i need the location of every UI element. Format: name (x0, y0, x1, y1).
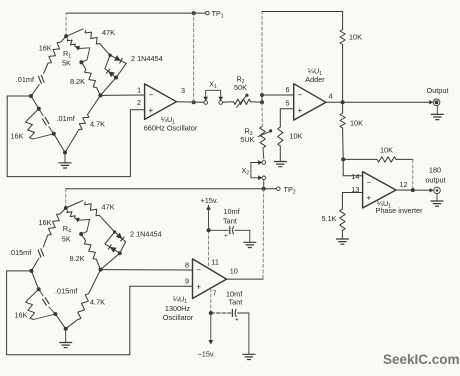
terminal TP2 (277, 187, 281, 191)
label plus U1c (196, 283, 201, 292)
wire bridge1 left diagonal (31, 96, 39, 109)
svg-text:X1: X1 (209, 80, 217, 91)
node -15v cap junction (209, 311, 213, 315)
label Adder (305, 75, 325, 84)
wire TP1 stub (195, 12, 205, 14)
label pin8 (185, 261, 189, 270)
capacitor .01mf serial (31, 75, 44, 96)
label 1/4U1 (b) (308, 67, 322, 78)
label Oscillator (2) (163, 313, 194, 322)
label 16K lower (2) (15, 311, 28, 320)
label Tant (bottom) (229, 298, 243, 307)
wire X2 to TP2 (263, 180, 265, 189)
label 16K (2) (39, 218, 52, 227)
svg-text:12: 12 (400, 180, 408, 189)
svg-text:−: − (367, 178, 372, 187)
svg-text:10: 10 (230, 267, 238, 276)
svg-text:7: 7 (213, 288, 217, 297)
wire adder output (326, 101, 432, 103)
label +15v (201, 196, 219, 205)
wire to bridge2 bottom (55, 314, 65, 329)
svg-text:−: − (298, 91, 303, 100)
node adder in (fb) (260, 93, 264, 97)
label 1/4U1 (d) (377, 199, 391, 210)
arrow -15v (208, 289, 213, 345)
label plus U1a (149, 106, 154, 115)
label 10mf (bottom) (226, 290, 243, 299)
node bridge1 left (29, 94, 33, 98)
arrow output terminal (429, 100, 433, 104)
terminal TP1 (206, 11, 210, 15)
svg-text:2: 2 (137, 98, 141, 107)
svg-text:5K: 5K (62, 235, 71, 244)
label 10K fb top (349, 33, 362, 42)
svg-text:.015mf: .015mf (55, 287, 78, 296)
svg-text:R4: R4 (63, 224, 71, 235)
node bridge2 right (99, 268, 103, 272)
capacitor .015mf serial (31, 249, 44, 271)
resistor 10K feedback top (340, 30, 345, 102)
op-amp U1b adder (294, 84, 326, 120)
ground top cap (243, 242, 256, 247)
capacitor .015mf parallel (39, 289, 56, 314)
svg-text:+: + (235, 317, 239, 324)
wire pin5 (280, 109, 293, 127)
arrow +15v (206, 205, 211, 266)
label 5K (2) (62, 235, 71, 244)
node parallel2 top (37, 287, 41, 291)
svg-text:16K: 16K (11, 132, 24, 141)
terminal Output (433, 99, 440, 106)
label Tant (top) (223, 217, 237, 226)
svg-text:+: + (224, 233, 228, 240)
svg-text:10K: 10K (290, 132, 303, 141)
wire TP2 down to osc2 out (262, 189, 265, 279)
wire to bridge1 bottom (54, 134, 65, 153)
ground Output (431, 106, 444, 120)
label + (top cap) (224, 233, 228, 240)
resistor 4.7K (2) (66, 270, 101, 329)
node +15v cap junction (207, 228, 211, 232)
svg-text:Tant: Tant (229, 298, 243, 307)
capacitor 10mf Tant (bottom) (211, 309, 249, 354)
label 8.2K (1) (70, 77, 85, 86)
label .015mf serial (9, 248, 32, 257)
svg-text:+15v.: +15v. (201, 196, 219, 205)
resistor 16K upper-left (44, 36, 67, 73)
capacitor .01mf parallel (39, 109, 54, 134)
svg-text:8: 8 (185, 261, 189, 270)
wire pin6 (262, 94, 294, 96)
capacitor 10mf Tant (top) (209, 226, 250, 242)
wire inverter output (396, 189, 432, 191)
watermark SeekIC.com (383, 352, 460, 367)
wire osc1 output (177, 101, 204, 104)
terminal 180 output (434, 187, 441, 194)
wire R3 to X2 (262, 148, 265, 159)
svg-text:47K: 47K (102, 28, 115, 37)
svg-text:10mf: 10mf (224, 207, 241, 216)
svg-text:TP1: TP1 (212, 9, 224, 20)
svg-text:5.1K: 5.1K (321, 214, 336, 223)
resistor 47K (2) (66, 201, 115, 232)
label minus U1b (298, 91, 303, 100)
label -15v (198, 350, 216, 359)
svg-text:3: 3 (181, 86, 185, 95)
label pin14 (351, 172, 359, 181)
svg-text:Adder: Adder (305, 75, 325, 84)
label R2 (236, 75, 244, 86)
label 5K (62, 59, 71, 68)
label 10mf (top) (224, 207, 241, 216)
label pin12 (400, 180, 408, 189)
node parallel1 bottom (52, 132, 56, 136)
svg-text:Oscillator: Oscillator (163, 313, 194, 322)
label pin11 (211, 258, 219, 267)
wire bridge2 left stub (7, 270, 32, 272)
label Phase inverter (376, 206, 424, 215)
label plus U1d (367, 194, 372, 203)
wire pin13 (342, 193, 362, 210)
svg-text:.01mf: .01mf (16, 75, 35, 84)
svg-text:+: + (367, 194, 372, 203)
node TP2 junction (262, 187, 266, 191)
node parallel2 bottom (53, 312, 57, 316)
svg-text:Output: Output (427, 86, 449, 95)
label pin5 (285, 99, 289, 108)
op-amp U1d phase inverter (363, 172, 396, 208)
label R1 (63, 49, 71, 60)
label 47K (2) (102, 203, 115, 212)
label 180 (429, 166, 441, 175)
svg-text:11: 11 (211, 258, 219, 267)
node bridge2 left (29, 269, 33, 273)
node adder in (R2) (260, 100, 264, 104)
label 5.1K (321, 214, 336, 223)
label output (425, 175, 445, 184)
arrow 180 terminal (430, 188, 434, 192)
label minus U1d (367, 178, 372, 187)
wire osc1 out vertical (193, 13, 195, 102)
label pin7 (213, 288, 217, 297)
svg-text:1: 1 (137, 86, 141, 95)
switch X1 (203, 90, 223, 104)
svg-text:SeekIC.com: SeekIC.com (383, 352, 460, 367)
node inverter input (341, 157, 345, 161)
node bridge2 top (64, 206, 68, 210)
ground 5.1K (336, 239, 349, 244)
label minus U1c (196, 266, 201, 275)
resistor 10K pin5 (278, 127, 283, 161)
svg-text:1300Hz: 1300Hz (165, 304, 191, 313)
svg-text:16K: 16K (39, 218, 52, 227)
svg-text:2 1N4454: 2 1N4454 (130, 230, 162, 239)
resistor 16K lower (2) (26, 289, 56, 319)
svg-text:6: 6 (285, 85, 289, 94)
label Output (427, 86, 449, 95)
label 660Hz Oscillator (144, 124, 198, 133)
label R3 (244, 127, 252, 138)
svg-text:10K: 10K (349, 33, 362, 42)
label 16K upper (39, 43, 52, 52)
ground bottom cap (242, 354, 255, 359)
label 47K upper (102, 28, 115, 37)
svg-text:16K: 16K (39, 43, 52, 52)
svg-text:.015mf: .015mf (9, 248, 32, 257)
svg-text:5: 5 (285, 99, 289, 108)
label pin9 (185, 276, 189, 285)
node parallel1 top (37, 107, 41, 111)
label .015mf parallel (55, 287, 78, 296)
wire TP2 stub (265, 188, 276, 190)
svg-text:10K: 10K (380, 146, 393, 155)
resistor 4.7K (1) (65, 95, 100, 152)
label + (bottom cap) (235, 317, 239, 324)
label 4.7K (2) (90, 298, 105, 307)
resistor 8.2K (2) (81, 234, 100, 270)
svg-text:660Hz Oscillator: 660Hz Oscillator (144, 124, 198, 133)
ground 180 output (431, 194, 444, 207)
node diode2 bottom (113, 230, 122, 255)
resistor 16K lower (1) (26, 109, 54, 139)
wire bridge2 top rail (66, 189, 263, 208)
node bridge2 bottom (64, 327, 68, 331)
label pin10 (230, 267, 238, 276)
label X2 (241, 166, 249, 177)
ground bridge2 (59, 329, 72, 348)
label pin1 (137, 86, 141, 95)
node osc1 output junction (192, 100, 196, 104)
label 4.7K (1) (90, 120, 105, 129)
svg-text:−: − (149, 91, 154, 100)
label 10K inv fb (380, 146, 393, 155)
wire pin14 (343, 159, 362, 175)
resistor 10K inverter input (340, 102, 345, 159)
node diode1 bottom (108, 54, 118, 80)
svg-text:+: + (196, 283, 201, 292)
diodes 2 1N4454 (pair 2) (101, 232, 126, 270)
svg-text:47K: 47K (102, 203, 115, 212)
svg-text:−: − (196, 266, 201, 275)
node adder out (341, 100, 345, 104)
label X1 (209, 80, 217, 91)
wire top rail TP1 (66, 13, 194, 36)
label 16K lower (1) (11, 132, 24, 141)
resistor 47K upper (66, 29, 110, 55)
svg-text:Tant: Tant (223, 217, 237, 226)
wire bridge1 right to pin1 (100, 94, 144, 96)
ground bridge1 (59, 153, 72, 169)
svg-text:4: 4 (329, 92, 333, 101)
resistor 16K (2) (43, 208, 66, 247)
label .01mf serial (16, 75, 35, 84)
resistor 5.1K (340, 209, 345, 239)
label 2 1N4454 (1) (131, 54, 163, 63)
svg-text:5K: 5K (62, 59, 71, 68)
label pin4 (329, 92, 333, 101)
wire node stub (261, 95, 263, 102)
ground pin5 (274, 162, 287, 167)
label plus U1b (298, 106, 303, 115)
wire bridge2 left diagonal (31, 271, 38, 289)
svg-text:+: + (149, 106, 154, 115)
node inverter out (411, 188, 415, 192)
label 8.2K (2) (70, 254, 85, 263)
resistor 8.2K (1) (81, 62, 100, 95)
label pin3 (181, 86, 185, 95)
label 1300Hz (165, 304, 191, 313)
svg-text:9: 9 (185, 276, 189, 285)
node top-rail/osc1-out junction (192, 11, 196, 15)
label 10K inv in (350, 119, 363, 128)
label 50K (R2) (234, 83, 247, 92)
label 1/4U1 (a) (161, 115, 175, 126)
label TP2 (284, 185, 296, 196)
wire bridge1 left stub (7, 95, 31, 97)
wire X1 to R2 (223, 101, 234, 104)
potentiometer R1 5K (67, 39, 90, 63)
label 10K pin5 (290, 132, 303, 141)
potentiometer R2 50K (234, 94, 262, 108)
svg-text:10K: 10K (350, 119, 363, 128)
node R1 wiper junction (79, 60, 83, 64)
svg-text:TP2: TP2 (284, 185, 296, 196)
svg-text:16K: 16K (15, 311, 28, 320)
wire osc1 feedback box (7, 96, 144, 177)
label 1/4U1 (c) (173, 295, 187, 306)
resistor 10K inverter feedback (343, 157, 413, 190)
label minus U1a (149, 91, 154, 100)
label .01mf parallel (57, 114, 76, 123)
label TP1 (212, 9, 224, 20)
op-amp U1a 660Hz (145, 84, 177, 120)
svg-text:+: + (298, 106, 303, 115)
node bridge1 right (98, 93, 102, 97)
wire bridge2 right to pin8 (101, 269, 193, 271)
svg-text:2 1N4454: 2 1N4454 (131, 54, 163, 63)
svg-text:8.2K: 8.2K (70, 77, 85, 86)
svg-text:X2: X2 (241, 166, 249, 177)
label 2 1N4454 (2) (130, 230, 162, 239)
svg-text:4.7K: 4.7K (90, 120, 105, 129)
svg-text:Phase inverter: Phase inverter (376, 206, 424, 215)
label 5UK (240, 135, 254, 144)
potentiometer R3 50K (258, 102, 272, 148)
svg-text:5UK: 5UK (240, 135, 254, 144)
wire adder feedback top (262, 12, 343, 96)
svg-text:13: 13 (351, 185, 359, 194)
diodes 2 1N4454 (pair 1) (100, 55, 126, 95)
node bridge1 bottom (63, 151, 67, 155)
svg-text:8.2K: 8.2K (70, 254, 85, 263)
svg-text:−15v.: −15v. (198, 350, 216, 359)
wire osc2 output (227, 278, 264, 280)
svg-text:output: output (425, 175, 445, 184)
label R4 (63, 224, 71, 235)
wire osc2 feedback box (7, 271, 193, 355)
op-amp U1c 1300Hz (193, 259, 227, 299)
svg-text:50K: 50K (234, 83, 247, 92)
svg-text:4.7K: 4.7K (90, 298, 105, 307)
svg-text:180: 180 (429, 166, 441, 175)
svg-text:.01mf: .01mf (57, 114, 76, 123)
node bridge1 top (64, 34, 68, 38)
label pin2 (137, 98, 141, 107)
node R4 wiper junction (79, 232, 83, 236)
switch X2 (251, 160, 266, 180)
svg-text:14: 14 (351, 172, 359, 181)
potentiometer R4 5K (67, 210, 90, 234)
label pin13 (351, 185, 359, 194)
label pin6 (285, 85, 289, 94)
